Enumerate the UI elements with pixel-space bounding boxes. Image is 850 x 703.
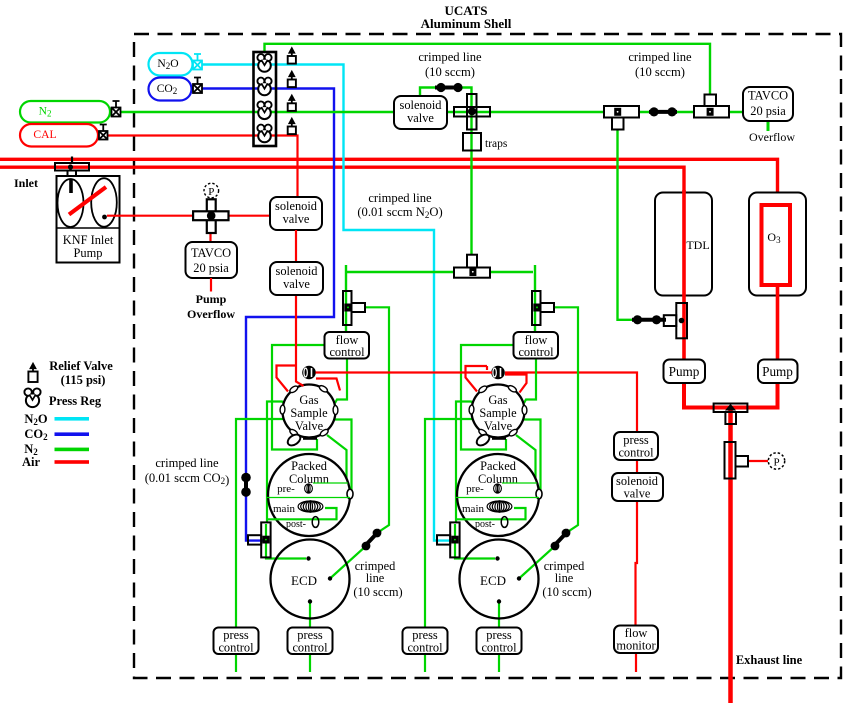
svg-text:Pump: Pump <box>196 292 227 306</box>
svg-text:Sample: Sample <box>479 406 517 420</box>
svg-text:TAVCO: TAVCO <box>748 89 788 103</box>
cross fitting at traps <box>467 94 477 130</box>
post-column coil (channel 2) <box>501 517 508 528</box>
svg-text:Overflow: Overflow <box>749 130 795 144</box>
O3 cell (red rect) <box>762 205 791 285</box>
svg-text:ECD: ECD <box>480 573 506 588</box>
svg-text:valve: valve <box>283 277 310 291</box>
press control box A (channel 1) <box>214 628 259 655</box>
press control box A (channel 2) <box>403 628 448 655</box>
svg-text:Overflow: Overflow <box>187 307 235 321</box>
svg-text:post-: post- <box>475 519 495 530</box>
exhaust gauge fitting <box>725 442 736 479</box>
post-column coil (channel 1) <box>312 517 319 528</box>
svg-text:(10 sccm): (10 sccm) <box>353 585 402 599</box>
svg-text:post-: post- <box>286 519 306 530</box>
svg-text:Exhaust line: Exhaust line <box>736 653 803 667</box>
press control box (detector vent) <box>614 432 658 460</box>
wire air main lower (to TDL) <box>0 167 684 192</box>
crimped line symbol at TDL inlet <box>632 318 666 322</box>
press control box B (channel 2) <box>477 628 522 655</box>
svg-text:Valve: Valve <box>295 419 324 433</box>
svg-text:20 psia: 20 psia <box>750 104 786 118</box>
CO2 shutoff valve <box>193 78 202 94</box>
wire flow control to GSV inlet port (channel 1) <box>335 359 347 404</box>
wire cross to TAVCO <box>209 218 211 242</box>
svg-text:crimped line: crimped line <box>418 50 482 64</box>
flow-control tee fitting (channel 1) <box>343 291 352 325</box>
CAL gas capsule <box>20 124 98 147</box>
svg-text:solenoid: solenoid <box>276 264 319 278</box>
wire main-column to post trace (channel 2) <box>456 508 526 519</box>
wire O3 to pump <box>776 284 780 361</box>
makeup gas tee fitting (channel 1) <box>261 522 270 557</box>
Pump box (O3) <box>758 360 798 384</box>
gas sample valve GSV2 <box>469 384 527 447</box>
svg-text:control: control <box>518 345 554 359</box>
inlet fitting on air mains <box>71 157 73 164</box>
wire carrier gas drop to flow-control tee (channel 1) <box>345 265 347 332</box>
TAVCO 20 psia box (overflow, right) <box>743 87 793 121</box>
wire carrier gas drop to flow-control tee (channel 2) <box>534 265 536 332</box>
wire GSV port to sample loop return (channel 1) <box>272 345 324 450</box>
svg-text:crimped line: crimped line <box>368 191 432 205</box>
wire sample header to both GC channels <box>346 271 533 273</box>
svg-text:Air: Air <box>22 455 41 469</box>
svg-text:main: main <box>462 503 484 515</box>
main column coil (channel 2) <box>487 501 512 512</box>
wire press control vent (red) from sample line <box>505 373 637 433</box>
flow control box (channel 2) <box>514 332 559 359</box>
svg-text:monitor: monitor <box>616 639 656 653</box>
wire press control outlet stub A (channel 2) <box>424 654 426 672</box>
wire N2 (green) supply main <box>121 111 744 113</box>
crimped line symbol (10 sccm, top) <box>435 86 462 90</box>
pre-column coil (channel 1) <box>305 484 313 493</box>
svg-text:(10 sccm): (10 sccm) <box>542 585 591 599</box>
svg-text:P: P <box>773 457 779 469</box>
svg-text:(10 sccm): (10 sccm) <box>425 65 475 79</box>
svg-text:Aluminum Shell: Aluminum Shell <box>421 16 512 31</box>
legend press reg symbol <box>26 394 39 407</box>
press control box B (channel 1) <box>288 628 333 655</box>
N2O shutoff valve <box>193 54 202 70</box>
svg-text:pre-: pre- <box>466 483 484 495</box>
solenoid valve box (trap line) <box>394 96 447 129</box>
wire GSV port to pre-column (channel 2) <box>516 435 538 483</box>
tee on N2 main (to TDL branch) <box>612 118 624 130</box>
relief valve RV1 (115 psi) <box>288 56 296 64</box>
pressure regulator PR1 <box>258 59 271 72</box>
wire column chord trace (channel 2) <box>456 497 539 499</box>
tee on N2 main (from vent header) <box>705 95 717 108</box>
ECD detector (channel 1) <box>271 540 350 619</box>
wire solenoid valve to trap cross (crimped line 10 sccm) <box>420 88 472 267</box>
svg-text:Gas: Gas <box>488 393 507 407</box>
wire flow control to GSV inlet port (channel 2) <box>524 359 536 404</box>
wire solenoid 1 to solenoid 2 <box>295 230 297 262</box>
svg-text:TDL: TDL <box>686 238 709 252</box>
svg-text:valve: valve <box>283 212 310 226</box>
wire CAL (red) line to solenoid valves <box>107 136 298 198</box>
makeup gas tee fitting (channel 2) <box>450 522 459 557</box>
wire TAVCO overflow stub <box>767 121 770 131</box>
wire press control outlet stub B (channel 1) <box>309 654 311 672</box>
svg-text:control: control <box>407 641 443 655</box>
wire CO2 (blue) net: capsule to left GC makeup fitting <box>202 89 334 541</box>
pressure regulator PR2 <box>258 83 271 96</box>
exhaust manifold tee <box>714 404 748 413</box>
TDL box <box>655 193 712 296</box>
packed column circle (channel 1) <box>267 454 353 536</box>
solenoid valve box 2 (CAL line) <box>270 262 323 295</box>
wire TAVCO to pump overflow <box>210 278 212 292</box>
svg-text:Pump: Pump <box>669 364 700 379</box>
svg-text:(0.01 sccm N2O): (0.01 sccm N2O) <box>357 205 442 220</box>
wire N2O (cyan) net: capsule to right GC makeup fitting <box>202 65 452 541</box>
KNF inlet pump <box>57 176 120 263</box>
pressure regulator manifold bank <box>254 52 277 146</box>
N2O gas capsule <box>149 53 193 76</box>
wire makeup tee through to ECD inlet (channel 2) <box>455 524 495 559</box>
relief valve RV3 (115 psi) <box>288 103 296 111</box>
svg-text:P: P <box>208 186 214 198</box>
svg-text:(0.01 sccm CO2): (0.01 sccm CO2) <box>145 471 230 487</box>
pressure gauge P2 <box>768 453 784 469</box>
svg-text:control: control <box>218 641 254 655</box>
wire gauge stub at exhaust fitting <box>748 460 768 462</box>
relief valve RV4 (115 psi) <box>288 127 296 135</box>
svg-text:valve: valve <box>624 487 651 501</box>
svg-text:(115 psi): (115 psi) <box>61 373 106 387</box>
wire flow monitor outlet <box>635 653 637 672</box>
svg-text:(10 sccm): (10 sccm) <box>635 65 685 79</box>
svg-text:Valve: Valve <box>484 419 513 433</box>
solenoid valve box (detector vent) <box>612 473 663 501</box>
svg-text:line: line <box>555 571 574 585</box>
wire pre-column trace (channel 1) <box>313 482 348 484</box>
TAVCO 20 psia box (pump overflow) <box>186 242 238 278</box>
N2 shutoff valve <box>112 101 121 117</box>
wire sample line between GSV1 and GSV2 <box>316 371 493 373</box>
pressure regulator PR3 <box>258 107 271 120</box>
Pump box (TDL) <box>664 360 706 384</box>
svg-text:Pump: Pump <box>762 364 793 379</box>
svg-text:ECD: ECD <box>291 573 317 588</box>
wire GSV port to column inlet (channel 1) <box>335 420 352 493</box>
wire press control to solenoid valve (right side) <box>636 460 638 473</box>
wire pump outputs to exhaust tee <box>684 382 730 408</box>
wire press control outlet stub A (channel 1) <box>235 654 237 672</box>
O3 box <box>749 193 806 296</box>
CAL shutoff valve <box>99 125 108 140</box>
svg-text:control: control <box>292 641 328 655</box>
svg-text:traps: traps <box>485 138 508 150</box>
wire cross to solenoid valve <box>211 215 270 217</box>
svg-text:pre-: pre- <box>277 483 295 495</box>
svg-text:KNF Inlet: KNF Inlet <box>63 233 114 247</box>
ECD detector (channel 2) <box>460 540 539 619</box>
wire GSV port to makeup tee (channel 2) <box>456 402 475 523</box>
svg-text:main: main <box>273 503 295 515</box>
svg-text:Relief Valve: Relief Valve <box>49 359 113 373</box>
legend relief valve symbol <box>28 372 37 383</box>
svg-text:control: control <box>481 641 517 655</box>
solenoid valve box 1 (CAL line) <box>270 197 322 230</box>
crimped line symbol on N2 main (10 sccm, top right) <box>649 110 677 114</box>
pressure gauge P1 <box>204 183 219 198</box>
svg-text:Pump: Pump <box>74 246 103 260</box>
wire sample loop left funnel (channel 2) <box>466 366 488 392</box>
main column coil (channel 1) <box>298 501 323 512</box>
wire solenoid valve to GSV1 sample inlet <box>296 295 304 386</box>
svg-text:crimped line: crimped line <box>155 456 219 470</box>
relief valve RV2 (115 psi) <box>288 80 296 88</box>
aluminum shell enclosure (dashed border) <box>134 34 841 678</box>
svg-text:valve: valve <box>407 111 434 125</box>
svg-text:Packed: Packed <box>291 459 328 473</box>
wire exhaust line <box>728 407 733 703</box>
wire sample loop right funnel (channel 2) <box>505 375 527 393</box>
traps box <box>463 133 481 151</box>
svg-text:CAL: CAL <box>33 128 56 141</box>
tee fitting at TDL inlet <box>676 303 687 338</box>
wire relief branch from tee to ECD vent (crimped line 10 sccm, channel 1) <box>330 307 389 578</box>
wire GSV port to pre-column (channel 1) <box>327 435 349 483</box>
CO2 gas capsule <box>149 78 192 101</box>
crimped line symbol at ECD vent (channel 2) <box>552 530 569 548</box>
crimped line symbol at ECD vent (channel 1) <box>363 530 380 548</box>
svg-text:Gas: Gas <box>299 393 318 407</box>
svg-text:control: control <box>618 446 654 460</box>
wire GSV port to sample loop return (channel 2) <box>461 345 513 450</box>
svg-text:TAVCO: TAVCO <box>191 246 231 260</box>
wire press control outlet stub B (channel 2) <box>498 654 500 672</box>
flow monitor box <box>614 626 658 654</box>
svg-text:20 psia: 20 psia <box>193 261 229 275</box>
svg-text:Inlet: Inlet <box>14 176 38 190</box>
wire N2 branch down to TDL crimp <box>618 117 635 320</box>
pressure regulator PR4 <box>258 130 271 143</box>
wire pre-column trace (channel 2) <box>502 482 537 484</box>
svg-text:solenoid: solenoid <box>400 98 443 112</box>
svg-text:Sample: Sample <box>290 406 328 420</box>
wire ECD outlet to press control (channel 2) <box>498 602 500 627</box>
wire main-column to post trace (channel 1) <box>267 508 337 519</box>
wire manifold vent header (green, top) <box>265 44 711 106</box>
wire pump outlet to cross <box>107 215 211 217</box>
wire sample loop right funnel (channel 1) <box>316 379 340 391</box>
wire GSV port to makeup tee (channel 1) <box>267 402 286 523</box>
crimped line symbol on CO2 line (0.01 sccm CO2) <box>244 474 248 496</box>
wire sample loop left funnel (channel 1) <box>277 366 297 392</box>
cross fitting at pump outlet <box>207 199 216 233</box>
svg-text:line: line <box>366 571 385 585</box>
wire column chord trace (channel 1) <box>267 497 350 499</box>
flow control box (channel 1) <box>325 332 370 359</box>
wire air through TDL down to pump <box>682 190 686 361</box>
wire GSV vent to press control (channel 2) <box>425 419 472 627</box>
svg-text:Packed: Packed <box>480 459 517 473</box>
svg-text:crimped line: crimped line <box>628 50 692 64</box>
wire ECD outlet to press control (channel 1) <box>309 602 311 627</box>
N2 gas capsule <box>20 101 110 123</box>
svg-text:Press Reg: Press Reg <box>49 394 102 408</box>
GSV actuator dot (channel 2) <box>491 366 505 380</box>
GSV actuator dot (channel 1) <box>302 366 316 380</box>
wire makeup tee through to ECD inlet (channel 1) <box>266 524 306 559</box>
wire solenoid valve to flow monitor <box>636 501 638 626</box>
pre-column coil (channel 2) <box>494 484 502 493</box>
gas sample valve GSV1 <box>280 384 338 447</box>
svg-text:control: control <box>329 345 365 359</box>
wire air main upper (to O3) <box>0 159 778 206</box>
wire GSV port to column inlet (channel 2) <box>524 420 541 493</box>
wire relief branch from tee to ECD vent (crimped line 10 sccm, channel 2) <box>519 307 578 578</box>
wire GSV vent to press control (channel 1) <box>236 419 283 627</box>
sample header tee <box>467 255 477 269</box>
svg-text:solenoid: solenoid <box>275 199 318 213</box>
packed column circle (channel 2) <box>456 454 542 536</box>
flow-control tee fitting (channel 2) <box>532 291 541 325</box>
